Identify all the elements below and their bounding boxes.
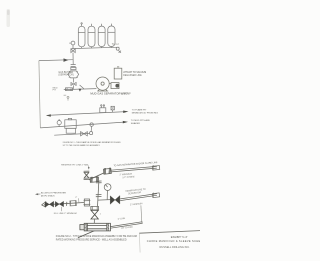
spool SA — [90, 176, 99, 182]
centrifugal pump circle — [96, 67, 122, 91]
left loop vertical line — [39, 61, 40, 128]
choke X1 hourglass — [91, 210, 98, 219]
pipe 2 end fitting — [152, 193, 159, 198]
vertical run with flanges — [96, 181, 111, 206]
labels at right of line1 — [131, 109, 158, 126]
line 2 — [40, 122, 126, 128]
hatched spool on suction pipe — [66, 88, 73, 91]
svg-text:FIGURE NO.1 - THE EXAMPLE OF M: FIGURE NO.1 - THE EXAMPLE OF MUD-GAS SEP… — [63, 141, 122, 144]
svg-text:(BOP) STACK: (BOP) STACK — [41, 194, 55, 197]
valve V2 dark bowtie — [55, 201, 63, 207]
svg-text:ATTACH TO VACUUM: ATTACH TO VACUUM — [123, 71, 146, 74]
caption figure 2 — [56, 235, 137, 242]
spool SB — [103, 168, 111, 175]
drain solid triangle — [79, 89, 82, 92]
pipe 3 double line — [111, 221, 143, 228]
kill line diagonal — [42, 202, 85, 207]
line B — [54, 133, 89, 135]
svg-text:FIGURE NO.2 - TYPICAL CHOKE MA: FIGURE NO.2 - TYPICAL CHOKE MANIFOLD ASS… — [56, 235, 137, 238]
gauge circle at manifold left — [71, 41, 75, 45]
suction pipe — [64, 89, 97, 90]
jog line to pump — [80, 85, 84, 89]
pipe 1 end fitting — [152, 165, 159, 170]
svg-text:RUSSELL DRILLING INC.: RUSSELL DRILLING INC. — [160, 245, 191, 249]
svg-text:RESERVE PIT LINE 2" MIN.: RESERVE PIT LINE 2" MIN. — [61, 164, 89, 166]
line 1 — [47, 112, 127, 116]
svg-text:SHAKER: SHAKER — [131, 122, 140, 125]
spool S1 with flanged ends — [70, 200, 76, 206]
svg-text:TO FLARE PIT: TO FLARE PIT — [132, 109, 147, 112]
gas buster hexagon — [64, 71, 97, 91]
valve bowtie below hexagon — [71, 83, 76, 86]
bowtie on line B — [81, 132, 88, 136]
svg-text:RATED WORKING PRESSURE SERVICE: RATED WORKING PRESSURE SERVICE - WELL AS… — [56, 238, 127, 241]
arrowhead on feed line — [64, 58, 69, 62]
stem to bottom assembly — [93, 219, 95, 223]
bottom sleeve assembly — [78, 223, 110, 238]
tank boxes — [65, 120, 76, 129]
fitting F1 at diagonal right end — [84, 199, 91, 206]
svg-text:CHOKE MANIFOLD & SLEEVE SCHEMA: CHOKE MANIFOLD & SLEEVE SCHEMATIC — [147, 239, 200, 243]
manifold header line — [71, 47, 119, 48]
manifold valve V3 dark bowtie — [110, 196, 120, 205]
vertical drop line from manifold — [72, 53, 74, 65]
svg-text:2": 2" — [75, 197, 77, 199]
pipe 1 double line — [111, 166, 157, 172]
svg-text:(SEPARATOR): (SEPARATOR) — [58, 74, 74, 77]
arrowheads mid lines — [46, 114, 51, 117]
svg-text:MINIMUM 150' FROM RIG: MINIMUM 150' FROM RIG — [132, 112, 158, 114]
V_top valve stack — [84, 171, 90, 179]
diagonal to SB — [89, 173, 105, 180]
flange bars — [71, 64, 76, 66]
left fitting — [80, 225, 84, 230]
cylinder 3 — [98, 24, 105, 47]
gauge circle on line 2 — [57, 121, 61, 125]
cylinder 1 — [78, 23, 85, 47]
feed line with arrow into drop line — [39, 59, 73, 62]
label left of suction pipe — [53, 87, 58, 91]
staple smudge top-left — [7, 9, 11, 27]
vacuum tank — [114, 68, 122, 79]
node circles and connector — [90, 123, 93, 126]
cylinder 4 — [108, 24, 115, 47]
down-left line — [78, 231, 94, 238]
gauge G1 — [104, 184, 111, 200]
pipe 2 double line — [120, 194, 157, 201]
tiny valve below right fitting — [119, 51, 121, 53]
caption figure 1 — [63, 141, 122, 147]
valve bowtie under gauge — [71, 49, 75, 53]
svg-text:TL-1 2: TL-1 2 — [112, 43, 120, 46]
gauge square with X on line 1 — [111, 106, 114, 110]
svg-text:TO MUD PITS AND: TO MUD PITS AND — [131, 119, 151, 122]
svg-text:DEGASSER LINE: DEGASSER LINE — [123, 74, 142, 77]
component rect on line 1 — [100, 108, 106, 113]
valve V1 dark bowtie — [45, 201, 54, 207]
vertical connector above pipe3 — [140, 205, 143, 221]
BOP label — [41, 193, 66, 198]
valve body rect above hexagon — [71, 67, 76, 69]
hexagon bottom stem — [72, 78, 74, 82]
svg-text:UP TO THE CHOKE MANIFOLD ASSEM: UP TO THE CHOKE MANIFOLD ASSEMBLY — [63, 144, 101, 147]
tank label right — [123, 71, 146, 77]
pump body rect — [111, 83, 119, 89]
spool S2 — [91, 206, 99, 210]
exhibit title block — [139, 231, 200, 234]
svg-text:EXHIBIT "C-4": EXHIBIT "C-4" — [171, 235, 188, 239]
cylinder 2 — [88, 24, 95, 47]
cylinder stems to manifold — [81, 47, 83, 49]
small vent fitting marks above line 1 — [64, 95, 69, 101]
branch to right — [98, 199, 110, 202]
fitting circle at manifold right end — [116, 47, 119, 50]
pump side dark circle — [115, 84, 119, 88]
label left of gas buster — [58, 71, 74, 77]
svg-text:KILL LINE 2" MINIMUM: KILL LINE 2" MINIMUM — [54, 213, 77, 215]
svg-text:W/ PUMP: W/ PUMP — [121, 94, 132, 96]
